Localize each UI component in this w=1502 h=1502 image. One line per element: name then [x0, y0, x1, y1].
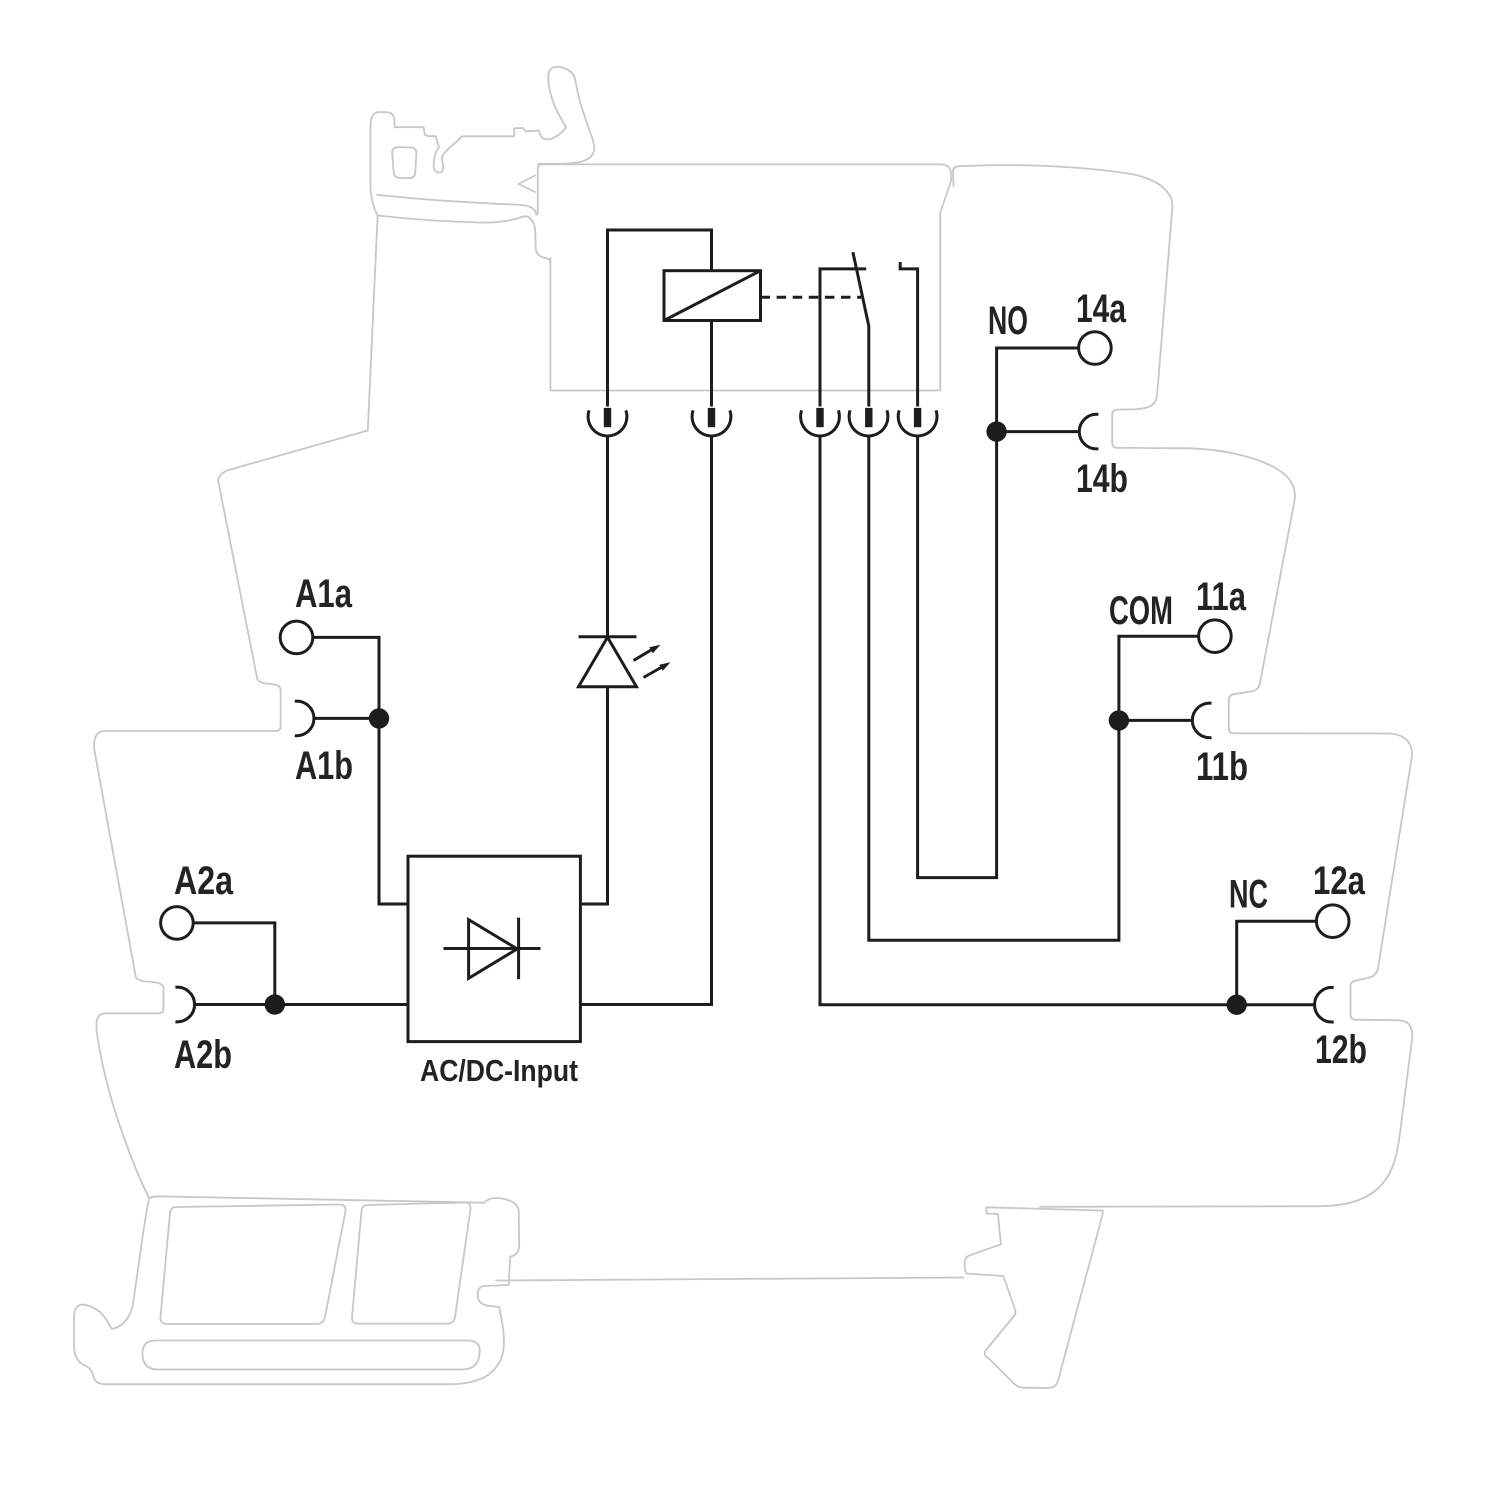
bridge diode horizontal lead	[444, 947, 541, 950]
wire node11 to clamp 11b	[1119, 719, 1193, 722]
clamp contact 11b	[1192, 703, 1211, 738]
wire coil bottom	[710, 321, 713, 407]
wire A2a to node	[193, 923, 275, 1005]
latch lower arc (lower) with S-curve into compartment edge	[378, 216, 551, 264]
switch fixed contact NC side	[820, 269, 866, 407]
svg-text:NO: NO	[988, 299, 1028, 343]
svg-text:AC/DC-Input: AC/DC-Input	[420, 1053, 578, 1088]
terminal circle 11a	[1199, 620, 1232, 653]
socket contact arc 2	[692, 410, 731, 436]
small triangular notch at compartment corner	[519, 176, 536, 193]
svg-text:A1a: A1a	[295, 572, 353, 616]
wire node11 to 11a	[1119, 636, 1199, 720]
switch moving lever	[853, 252, 869, 406]
wire node14 to 14a	[997, 348, 1079, 432]
clamp contact 12b	[1315, 987, 1334, 1022]
wire socket3 to NC rail	[820, 436, 1315, 1005]
module top-right and right-side tiered profile	[953, 165, 1412, 1207]
wire nodeA2 to AC/DC box	[275, 1003, 408, 1006]
wire socket4 to COM rail	[869, 436, 1119, 940]
dashed actuation link	[761, 296, 862, 299]
junction node A2	[265, 994, 285, 1014]
socket contact arc 1	[588, 410, 627, 436]
wire socket1 to LED	[606, 436, 609, 637]
DIN-rail foot outline	[74, 1196, 519, 1384]
svg-text:A2b: A2b	[174, 1033, 232, 1077]
wire A1a to node	[313, 637, 379, 718]
wire node14 to clamp 14b	[997, 430, 1080, 433]
wire coil left loop	[608, 230, 712, 407]
foot inner panel 2	[352, 1203, 471, 1324]
socket pin 3	[816, 408, 823, 427]
socket contact arc 5	[898, 410, 937, 436]
wire node12 to 12a	[1237, 921, 1317, 1005]
LED arrow 2 head	[659, 662, 670, 671]
clamp contact 14b	[1079, 414, 1098, 449]
AC/DC input box	[408, 856, 580, 1041]
terminal circle A2a	[161, 907, 194, 940]
circuit (black)	[161, 230, 1349, 1042]
relay coil K1	[664, 271, 761, 321]
terminal circle 14a	[1079, 332, 1112, 365]
foot inner panel 1	[160, 1205, 345, 1325]
socket contact arc 3	[801, 410, 840, 436]
bridge diode triangle	[469, 920, 518, 979]
svg-text:COM: COM	[1109, 589, 1173, 633]
relay compartment box (gray)	[538, 164, 952, 390]
foot bottom slot	[142, 1341, 479, 1370]
latch inner window cutout	[392, 147, 416, 178]
svg-text:12b: 12b	[1315, 1028, 1367, 1072]
socket pin 5	[914, 408, 921, 427]
clamp contact A1b	[295, 701, 314, 736]
svg-text:14b: 14b	[1076, 457, 1128, 501]
clamp contact A2b	[175, 987, 194, 1022]
DIN rail line	[496, 1278, 963, 1281]
svg-text:A1b: A1b	[295, 744, 353, 788]
wire clamp A2b to node	[194, 1003, 275, 1006]
wire nodeA1 to AC/DC box	[379, 718, 408, 904]
latch lower arc (upper)	[377, 195, 536, 215]
junction node A1	[369, 708, 389, 728]
latch lever outline (top-left)	[370, 67, 594, 216]
bridge diode cathode bar	[517, 918, 520, 980]
socket contact arc 4	[849, 410, 888, 436]
LED wire to AC/DC box	[581, 687, 608, 904]
svg-text:A2a: A2a	[174, 859, 234, 903]
switch fixed contact NO side	[900, 262, 917, 407]
wire clamp A1b to node	[314, 717, 379, 720]
wire socket2 to AC/DC box	[581, 436, 712, 1005]
LED cathode bar	[579, 635, 637, 638]
junction node 12	[1227, 995, 1247, 1015]
coil diagonal	[664, 271, 761, 321]
terminal circle 12a	[1316, 905, 1349, 938]
LED triangle	[579, 637, 637, 687]
LED arrow 2 shaft	[644, 667, 663, 678]
svg-text:11b: 11b	[1196, 745, 1248, 789]
socket pin 4	[865, 408, 872, 427]
svg-text:14a: 14a	[1076, 287, 1127, 331]
module left-side tiered profile	[94, 216, 378, 1198]
socket pin 1	[604, 408, 611, 427]
svg-text:11a: 11a	[1196, 575, 1247, 619]
wire socket5 to NO rail	[918, 432, 997, 878]
terminal circle A1a	[280, 621, 313, 654]
socket pin 2	[708, 408, 715, 427]
housing outline (light gray)	[74, 67, 1412, 1388]
junction node 14	[986, 421, 1006, 441]
LED arrow 1 head	[649, 645, 660, 654]
svg-text:12a: 12a	[1313, 859, 1366, 903]
LED arrow 1 shaft	[634, 650, 653, 661]
right rail clamp piece	[965, 1207, 1103, 1388]
svg-text:NC: NC	[1229, 873, 1268, 917]
junction node 11	[1109, 710, 1129, 730]
socket pins (filled)	[265, 408, 1247, 1015]
